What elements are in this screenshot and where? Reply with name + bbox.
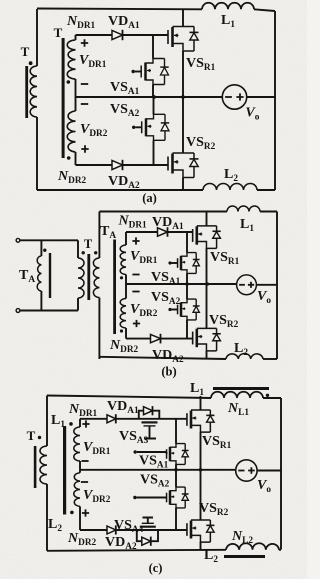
transformer T primary lead upper (panel b) — [77, 240, 79, 258]
diode VD_A2 (panel c) — [107, 526, 116, 534]
svg-text:T: T — [84, 237, 93, 251]
wire: VS_A2 drain stub (panel a) — [153, 97, 155, 114]
transformer T primary lead lower (panel b) — [77, 298, 79, 311]
wire: VS_R1 source stub (panel b) — [206, 248, 208, 284]
polarity dot T secondary (panel b) — [94, 251, 97, 254]
transistor VS_R1 (panel c) — [190, 411, 193, 429]
minus sign V_DR1 (panel b) — [132, 274, 139, 276]
inductor L1 coil (panel b) — [227, 206, 260, 211]
wire: panel a gate line 2 (to VS_R2 gate) — [76, 164, 169, 166]
gate lead+dot VS_A1 (panel b) — [172, 262, 178, 264]
wire: panel a bottom rail right segment — [257, 189, 275, 191]
wire: panel a gate line 1 (to VS_R1 gate) — [76, 34, 168, 36]
node junction aux fets mid line (panel b) — [185, 282, 189, 286]
plus sign V_DR1 (panel b) — [132, 237, 139, 244]
transistor VS_R2 (panel b) — [196, 329, 199, 347]
diode loop of VS_A4 (panel c) — [137, 530, 158, 541]
input terminal bottom (panel b) — [16, 309, 20, 313]
wire: VS_A1 source stub (panel a) — [152, 85, 154, 98]
transistor VS_R2 (panel c) — [190, 521, 193, 539]
wire: panel a top rail right segment — [254, 9, 275, 11]
wire: panel b mid output line left — [126, 283, 237, 285]
wire: N_DR1 box edge lower (panel b) — [125, 275, 127, 285]
winding N_DR1 (panel a) — [67, 40, 75, 79]
wire: panel c left rail lower — [46, 484, 48, 551]
diode VD_A1 (panel b) — [158, 228, 168, 236]
node junction VS_R fets mid line (panel c) — [199, 468, 203, 472]
transistor VS_A2 (panel a) — [145, 118, 148, 136]
wire: VS_R2 source stub (panel b) — [206, 351, 208, 359]
wire: N_DR1 box edge top stub (panel c) — [79, 419, 81, 427]
diode VD_A1 (panel c) — [107, 415, 116, 423]
transistor VS_A1 (panel b) — [180, 256, 183, 270]
wire: VS_R2 source stub (panel c) — [200, 542, 202, 550]
transistor VS_A1 (panel c) — [169, 447, 172, 461]
plus sign V_DR2 (panel b) — [133, 320, 140, 327]
minus sign V_DR2 (panel c) — [81, 481, 88, 483]
wire: VS_R1 drain stub (panel c) — [200, 396, 202, 410]
minus sign inside Vo (panel a) — [225, 96, 232, 98]
gate lead+dot VS_A2 (panel c) — [137, 497, 167, 499]
wire: N_DR1 box left edge top stub (panel a) — [75, 35, 77, 40]
winding N_DR1 (panel b) — [120, 245, 126, 275]
node junction VS_R1/VS_R2 on mid line (panel a) — [181, 95, 185, 99]
wire: N_DR1 box edge lower (panel c) — [79, 461, 81, 470]
wire: VS_A1 drain stub (panel c) — [175, 419, 177, 444]
wire: panel c bottom rail right stub — [279, 549, 281, 551]
wire: panel b bottom rail right — [263, 358, 277, 360]
wire: VS_R2 source stub to bottom rail (panel a) — [182, 178, 184, 191]
wire: VS_A2 source stub (panel a) — [153, 140, 155, 165]
wire: VS_A2 source stub (panel c) — [175, 508, 177, 530]
inductor L2 coil (panel c) — [226, 543, 279, 550]
minus sign V_DR1 (panel a) — [81, 83, 88, 85]
plus sign V_DR2 (panel c) — [82, 509, 89, 516]
voltage source Vo circle (panel a) — [222, 85, 246, 109]
wire: VS_A2 drain stub (panel b) — [186, 284, 188, 299]
drive windings core bar (panel a) — [62, 38, 65, 158]
plus sign V_DR2 (panel a) — [81, 145, 88, 152]
polarity dot N_DR2 (panel b) — [120, 329, 123, 332]
plus sign inside Vo (panel a) — [236, 93, 243, 100]
transistor VS_R2 (panel a) — [171, 154, 174, 174]
wire: VS_A1 source stub (panel c) — [175, 464, 177, 469]
winding N_DR2 (panel c) — [74, 473, 80, 507]
voltage source Vo circle (panel b) — [237, 275, 257, 295]
transistor VS_A3 channel bar (panel c) — [142, 421, 158, 423]
wire: N_DR2 box left edge bottom stub (panel a) — [75, 152, 77, 165]
inductor L1 coil (panel c) — [211, 392, 263, 398]
svg-text:T: T — [54, 25, 63, 40]
wire: panel a left rail lower — [36, 117, 38, 190]
node junction VS_R fets mid line (panel b) — [206, 282, 210, 286]
wire: panel b top rail right — [260, 211, 277, 213]
diode VD_A2 (panel a) — [112, 160, 123, 169]
wire: VS_R1 source stub to mid line (panel a) — [182, 51, 184, 97]
inductor L1/L2 winding bar (panel c) — [63, 426, 66, 515]
inductor L1 core bar (panel c) — [213, 387, 269, 390]
transformer TA core bar (panel b) — [49, 253, 51, 298]
wire: panel c top rail right — [263, 397, 281, 399]
wire: N_DR2 box edge bottom stub (panel c) — [79, 506, 81, 530]
polarity dot T winding (panel a) — [29, 61, 33, 65]
transistor VS_R1 (panel b) — [196, 226, 199, 244]
transistor VS_A3 gate bar (panel c) — [144, 425, 156, 427]
node junction VS_A1/VS_A2 on mid line (panel a) — [152, 95, 156, 99]
wire: VS_A4 gate stub (panel c) — [143, 518, 154, 524]
transformer T winding (panel c) — [40, 446, 47, 484]
wire: N_DR2 box edge upper (panel b) — [125, 284, 127, 299]
polarity dot N_DR1 (panel a) — [67, 80, 71, 84]
transformer T core bar (panel a) — [25, 66, 28, 118]
wire: N_DR1 box edge top stub (panel b) — [125, 232, 127, 245]
wire: VS_A1 drain stub (panel a) — [152, 35, 154, 59]
wire: VS_R1 source stub (panel c) — [200, 432, 202, 470]
svg-text:T: T — [21, 44, 30, 59]
wire: panel a left rail / transformer T secondary lead upper — [36, 9, 38, 66]
wire: VS_R2 drain stub to mid line (panel a) — [182, 97, 184, 153]
transistor VS_A4 channel bar (panel c) — [140, 526, 156, 528]
wire: panel b mid output line right — [256, 284, 277, 286]
plus sign inside Vo (panel b) — [248, 282, 254, 288]
input terminal top (panel b) — [16, 238, 20, 242]
gate lead+dot VS_A2 (panel a) — [135, 126, 141, 128]
plus sign V_DR1 (panel c) — [82, 420, 89, 427]
wire: panel b bottom rail left — [99, 357, 226, 359]
minus sign inside Vo (panel c) — [238, 470, 244, 472]
wire: panel b top rail left — [99, 211, 227, 213]
diode loop of VS_A3 (panel c) — [139, 411, 160, 419]
svg-text:(a): (a) — [142, 191, 157, 205]
transistor VS_R1 (panel a) — [171, 27, 174, 47]
polarity dot L2 bar bottom (panel c) — [70, 511, 74, 515]
wire: VS_R2 drain stub (panel b) — [206, 284, 208, 328]
wire: input bottom to transformers (panel b) — [20, 310, 78, 312]
minus sign V_DR1 (panel c) — [81, 460, 88, 462]
winding N_DR2 (panel a) — [67, 111, 75, 152]
polarity dot L1/N_L1 (panel c) — [266, 394, 269, 397]
wire: panel c mid output line left — [80, 469, 236, 471]
gate lead+dot VS_A2 (panel b) — [172, 309, 178, 311]
transformer T secondary upper lead / panel b left rail — [98, 212, 100, 259]
plus sign V_DR1 (panel a) — [81, 39, 88, 46]
minus sign V_DR2 (panel b) — [132, 291, 139, 293]
svg-text:T: T — [27, 428, 36, 443]
transformer TA primary winding (panel b) — [37, 256, 41, 291]
transformer T core bar (panel c) — [34, 446, 37, 488]
transformer T secondary winding (panel a) — [30, 66, 37, 117]
polarity dot N_DR2 (panel a) — [67, 156, 71, 160]
diode VD_A1 (panel a) — [112, 30, 123, 39]
transistor VS_A4 gate bar (panel c) — [142, 522, 154, 524]
wire: panel a top rail left segment — [37, 8, 202, 11]
polarity dot L1 bar top (panel c) — [69, 422, 73, 426]
minus sign inside Vo (panel b) — [239, 284, 245, 286]
wire: VS_A1 drain stub (panel b) — [186, 232, 188, 253]
svg-text:(c): (c) — [149, 561, 163, 575]
transformer T core bar (panel b) — [87, 254, 90, 300]
wire: VS_A1 source stub (panel b) — [186, 273, 188, 284]
wire: panel c bottom rail left — [47, 550, 226, 551]
wire: VS_R2 drain stub (panel c) — [200, 470, 202, 520]
plus sign inside Vo (panel c) — [248, 467, 255, 474]
wire: panel c gate line 1 — [80, 418, 187, 420]
polarity dot TA primary (panel b) — [43, 249, 46, 252]
wire: VS_R1 drain stub to top rail (panel a) — [182, 9, 184, 27]
auxiliary transformer TA secondary bar (panel b) — [113, 240, 116, 335]
inductor L2 (panel a) coil — [203, 184, 257, 191]
wire: N_DR2 box edge bottom stub (panel b) — [125, 328, 127, 339]
wire: panel a right rail — [274, 11, 276, 190]
wire: panel a bottom rail left segment — [37, 189, 203, 191]
wire: panel b right rail — [276, 212, 278, 360]
wire: VS_A2 source stub (panel b) — [186, 320, 188, 339]
wire: panel b gate line 2 — [126, 338, 192, 340]
wire: N_DR2 box edge upper (panel c) — [79, 470, 81, 473]
minus sign V_DR2 (panel a) — [81, 103, 88, 105]
transistor VS_A2 (panel b) — [180, 302, 183, 316]
inductor L2 coil (panel b) — [226, 353, 263, 359]
gate lead+dot VS_A1 (panel c) — [137, 452, 167, 454]
wire: N_DR2 box left edge upper (panel a) — [75, 97, 77, 111]
transistor VS_A2 (panel c) — [169, 490, 172, 504]
wire: panel a mid output line left — [76, 96, 223, 98]
gate lead+dot VS_A1 (panel a) — [135, 71, 141, 73]
transformer T secondary lower lead (panel b) — [98, 298, 100, 360]
wire: panel b gate line 1 — [126, 231, 192, 233]
winding N_DR1 (panel c) — [74, 427, 80, 461]
svg-text:(b): (b) — [161, 365, 176, 379]
inductor L2 core bar (panel c) — [224, 555, 265, 558]
transformer T secondary winding (panel b) — [93, 258, 99, 298]
polarity dot T primary (panel b) — [82, 251, 85, 254]
wire: N_DR1 box left edge lower (panel a) — [75, 79, 77, 97]
wire: panel c right rail — [280, 398, 282, 550]
diode VD_A2 (panel b) — [151, 334, 161, 342]
wire: VS_A3 gate stub (panel c) — [144, 426, 156, 439]
transformer TA primary lead upper (panel b) — [40, 240, 42, 256]
node junction aux fets mid line (panel c) — [174, 468, 178, 472]
inductor L1 (panel a) coil — [202, 3, 254, 9]
wire: VS_A2 drain stub (panel c) — [175, 470, 177, 487]
transistor VS_A1 (panel a) — [144, 63, 147, 81]
voltage source Vo circle (panel c) — [236, 460, 257, 481]
wire: input top to transformers (panel b) — [20, 239, 78, 241]
winding N_DR2 (panel b) — [120, 299, 126, 329]
transformer T primary winding (panel b) — [78, 258, 84, 298]
transformer TA primary lead lower (panel b) — [40, 291, 42, 311]
wire: panel c mid output line right — [257, 470, 281, 472]
polarity dot N_DR1 (panel b) — [120, 276, 123, 279]
wire: panel c left rail upper — [46, 396, 48, 447]
wire: panel a mid output line right — [247, 96, 275, 98]
wire: VS_R1 drain stub (panel b) — [206, 212, 208, 226]
wire: panel c gate line 2 — [80, 529, 187, 531]
wire: panel c top rail left — [47, 396, 211, 399]
